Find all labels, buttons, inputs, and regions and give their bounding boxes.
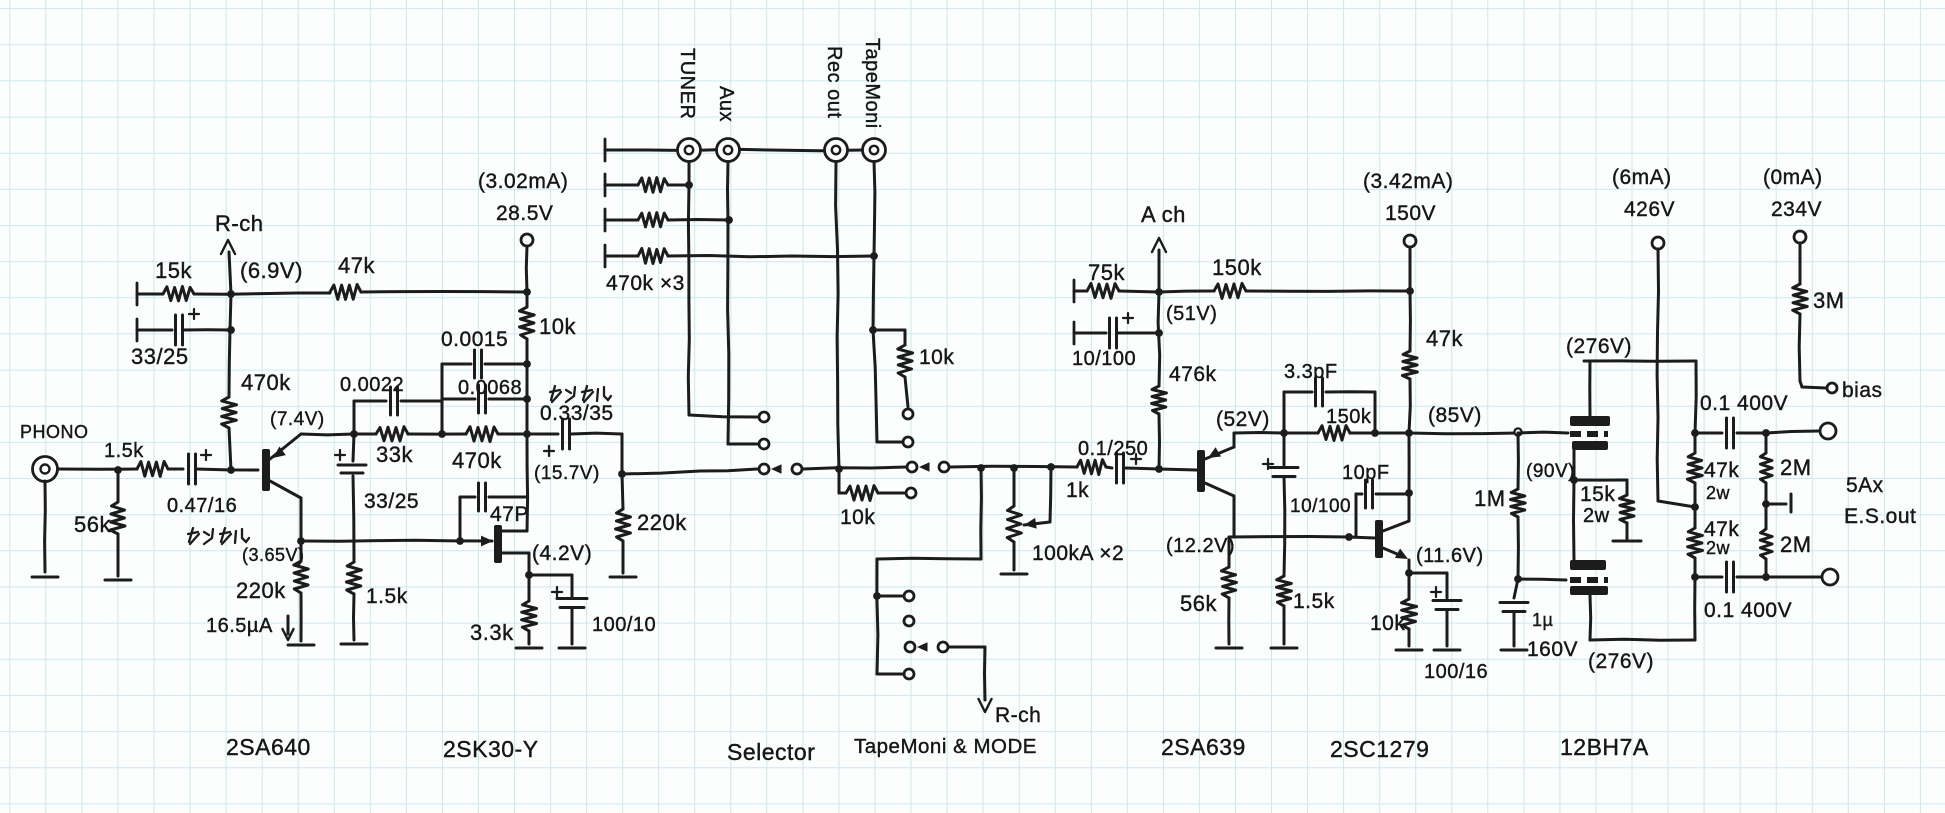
svg-text:426V: 426V	[1624, 198, 1675, 221]
svg-text:R-ch: R-ch	[995, 704, 1041, 727]
svg-text:0.0015: 0.0015	[441, 328, 508, 351]
svg-text:33k: 33k	[376, 442, 413, 467]
svg-text:56k: 56k	[1180, 591, 1217, 616]
svg-text:(6mA): (6mA)	[1612, 166, 1672, 189]
svg-text:2SC1279: 2SC1279	[1330, 736, 1429, 762]
svg-text:47k: 47k	[1704, 459, 1739, 482]
svg-text:1.5k: 1.5k	[1293, 590, 1335, 613]
svg-text:(276V): (276V)	[1566, 335, 1632, 358]
svg-text:1µ: 1µ	[1532, 610, 1553, 630]
svg-text:2M: 2M	[1780, 532, 1812, 557]
svg-text:TUNER: TUNER	[676, 48, 698, 119]
svg-text:470k: 470k	[241, 370, 291, 395]
svg-text:220k: 220k	[236, 578, 286, 603]
svg-text:0.1/250: 0.1/250	[1078, 438, 1148, 460]
svg-text:(7.4V): (7.4V)	[270, 409, 325, 430]
svg-text:5Ax: 5Ax	[1846, 474, 1884, 497]
svg-text:100/10: 100/10	[592, 614, 656, 636]
svg-text:33/25: 33/25	[131, 344, 189, 369]
svg-text:150k: 150k	[1212, 255, 1262, 280]
svg-text:47k: 47k	[338, 253, 375, 278]
svg-text:(11.6V): (11.6V)	[1416, 545, 1484, 567]
svg-text:(3.65V): (3.65V)	[242, 545, 305, 565]
svg-text:234V: 234V	[1771, 198, 1822, 221]
svg-text:3.3pF: 3.3pF	[1284, 361, 1338, 383]
svg-text:47P: 47P	[490, 503, 529, 526]
svg-text:2w: 2w	[1583, 505, 1610, 527]
svg-text:28.5V: 28.5V	[496, 202, 553, 225]
svg-text:10k: 10k	[919, 346, 954, 369]
svg-text:10/100: 10/100	[1072, 348, 1136, 370]
svg-text:2SA639: 2SA639	[1161, 734, 1246, 760]
svg-text:(52V): (52V)	[1216, 408, 1270, 431]
svg-text:(3.42mA): (3.42mA)	[1363, 170, 1453, 193]
svg-text:Rec out: Rec out	[823, 46, 845, 118]
svg-text:10k: 10k	[840, 506, 875, 529]
svg-text:(3.02mA): (3.02mA)	[478, 170, 568, 193]
svg-text:(90V): (90V)	[1526, 461, 1575, 482]
svg-text:3.3k: 3.3k	[470, 620, 514, 645]
svg-text:16.5µA: 16.5µA	[206, 615, 273, 637]
svg-text:0.1 400V: 0.1 400V	[1704, 599, 1792, 622]
svg-text:0.0068: 0.0068	[458, 377, 522, 399]
svg-text:Selector: Selector	[727, 739, 815, 765]
svg-text:160V: 160V	[1527, 638, 1578, 661]
svg-text:(85V): (85V)	[1428, 404, 1482, 427]
svg-text:(6.9V): (6.9V)	[240, 258, 303, 283]
svg-text:R-ch: R-ch	[215, 211, 263, 236]
svg-text:470k ×3: 470k ×3	[606, 272, 685, 295]
svg-text:0.0022: 0.0022	[340, 374, 404, 396]
svg-text:TapeMoni & MODE: TapeMoni & MODE	[854, 735, 1037, 758]
svg-text:2w: 2w	[1706, 538, 1731, 558]
svg-text:(0mA): (0mA)	[1763, 166, 1823, 189]
svg-text:0.33/35: 0.33/35	[540, 402, 614, 425]
svg-text:(4.2V): (4.2V)	[532, 542, 592, 565]
svg-text:476k: 476k	[1169, 363, 1217, 386]
svg-text:0.1 400V: 0.1 400V	[1700, 392, 1788, 415]
svg-text:2SA640: 2SA640	[226, 734, 311, 760]
svg-text:150V: 150V	[1385, 202, 1436, 225]
svg-text:100/16: 100/16	[1424, 661, 1488, 683]
svg-text:2w: 2w	[1706, 483, 1731, 503]
svg-text:12BH7A: 12BH7A	[1560, 734, 1649, 760]
svg-text:1k: 1k	[1066, 479, 1089, 502]
svg-text:47k: 47k	[1426, 326, 1463, 351]
svg-text:A ch: A ch	[1141, 202, 1186, 227]
svg-text:(12.2V): (12.2V)	[1166, 535, 1235, 557]
svg-text:56k: 56k	[74, 512, 111, 537]
svg-text:15k: 15k	[155, 258, 192, 283]
svg-text:10k: 10k	[539, 314, 576, 339]
svg-text:150k: 150k	[1326, 406, 1372, 428]
svg-text:10/100: 10/100	[1290, 496, 1351, 517]
svg-text:bias: bias	[1842, 379, 1883, 402]
svg-text:(51V): (51V)	[1166, 303, 1217, 325]
svg-text:TapeMoni: TapeMoni	[861, 38, 883, 129]
svg-text:1.5k: 1.5k	[104, 440, 144, 462]
svg-text:E.S.out: E.S.out	[1844, 505, 1916, 528]
svg-text:Aux: Aux	[715, 86, 737, 122]
svg-text:1M: 1M	[1474, 486, 1506, 511]
svg-text:2M: 2M	[1780, 455, 1812, 480]
svg-text:1.5k: 1.5k	[366, 585, 408, 608]
svg-text:(276V): (276V)	[1588, 650, 1654, 673]
svg-text:220k: 220k	[637, 510, 687, 535]
svg-text:0.47/16: 0.47/16	[167, 495, 237, 517]
svg-text:10pF: 10pF	[1342, 462, 1390, 484]
svg-text:2SK30-Y: 2SK30-Y	[443, 736, 539, 762]
svg-text:33/25: 33/25	[364, 490, 419, 513]
svg-text:10k: 10k	[1370, 612, 1405, 635]
svg-text:470k: 470k	[452, 448, 502, 473]
svg-text:PHONO: PHONO	[20, 422, 89, 442]
svg-text:75k: 75k	[1088, 260, 1125, 285]
svg-text:3M: 3M	[1813, 288, 1845, 313]
svg-text:(15.7V): (15.7V)	[534, 463, 600, 484]
svg-text:15k: 15k	[1580, 483, 1615, 506]
svg-text:100kA ×2: 100kA ×2	[1032, 542, 1124, 565]
